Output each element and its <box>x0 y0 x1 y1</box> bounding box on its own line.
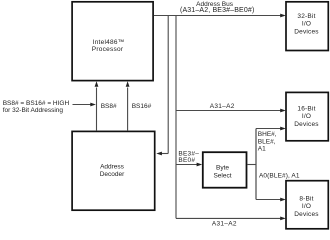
svg-text:Devices: Devices <box>294 211 319 218</box>
svg-text:Address: Address <box>100 164 125 171</box>
byte select block <box>203 152 247 188</box>
svg-text:Processor: Processor <box>92 46 124 53</box>
wire: BE3#-BE0# into byte select <box>176 163 202 167</box>
svg-text:BS16#: BS16# <box>132 103 152 110</box>
label: BE3#-BE0# <box>178 150 199 164</box>
svg-text:8-Bit: 8-Bit <box>299 195 313 202</box>
processor U1 (Intel486 Processor) <box>72 2 153 81</box>
wire: note arrow to BS8# line <box>73 103 96 107</box>
svg-text:Byte: Byte <box>216 164 229 171</box>
wire: BS8# from address decoder to processor <box>95 81 99 131</box>
address decoder <box>72 131 155 210</box>
svg-text:Select: Select <box>213 172 231 179</box>
svg-text:A1: A1 <box>258 146 266 153</box>
wire: BHE#, BLE#, A1 to 16-bit I/O devices <box>256 127 286 131</box>
wire: BE3#-BE0# drop to address decoder <box>156 15 168 155</box>
svg-text:I/O: I/O <box>302 203 311 210</box>
svg-text:Intel486™: Intel486™ <box>93 39 125 46</box>
svg-text:32-Bit: 32-Bit <box>297 13 315 20</box>
note: BS8# = BS16# = HIGH for 32-bit addressing <box>3 100 70 114</box>
wire: A31-A2 to 16-bit I/O devices <box>176 109 286 113</box>
wire: vertical address/BE trunk <box>175 15 177 218</box>
svg-text:BHE#,: BHE#, <box>258 131 277 138</box>
svg-text:BLE#,: BLE#, <box>258 139 276 146</box>
wire: A31-A2 to 8-bit I/O devices <box>176 217 286 221</box>
wire: byte select outputs trunk <box>247 129 256 200</box>
svg-text:for 32-Bit Addressing: for 32-Bit Addressing <box>3 107 64 114</box>
svg-text:BE0#: BE0# <box>178 157 195 164</box>
wire: A0(BLE#), A1 to 8-bit I/O devices <box>256 198 286 202</box>
svg-text:I/O: I/O <box>302 113 311 120</box>
svg-text:A0(BLE#), A1: A0(BLE#), A1 <box>259 173 300 180</box>
label: BHE#, BLE#, A1 <box>258 131 277 153</box>
svg-text:(A31–A2, BE3#–BE0#): (A31–A2, BE3#–BE0#) <box>180 7 254 14</box>
svg-text:A31–A2: A31–A2 <box>212 221 237 228</box>
svg-text:Devices: Devices <box>294 28 319 35</box>
svg-text:Decoder: Decoder <box>100 171 125 178</box>
wire: BS16# from address decoder to processor <box>126 81 130 131</box>
16-bit I/O devices block <box>286 92 328 140</box>
svg-text:I/O: I/O <box>302 21 311 28</box>
wire: address bus from processor to 32-bit I/O devices <box>154 14 286 18</box>
svg-text:BS8# = BS16# = HIGH: BS8# = BS16# = HIGH <box>3 100 70 107</box>
32-bit I/O devices block <box>286 2 328 51</box>
svg-text:16-Bit: 16-Bit <box>297 106 315 113</box>
8-bit I/O devices block <box>286 181 328 229</box>
svg-text:A31–A2: A31–A2 <box>210 103 235 110</box>
svg-text:BS8#: BS8# <box>101 103 117 110</box>
svg-text:Devices: Devices <box>294 121 319 128</box>
